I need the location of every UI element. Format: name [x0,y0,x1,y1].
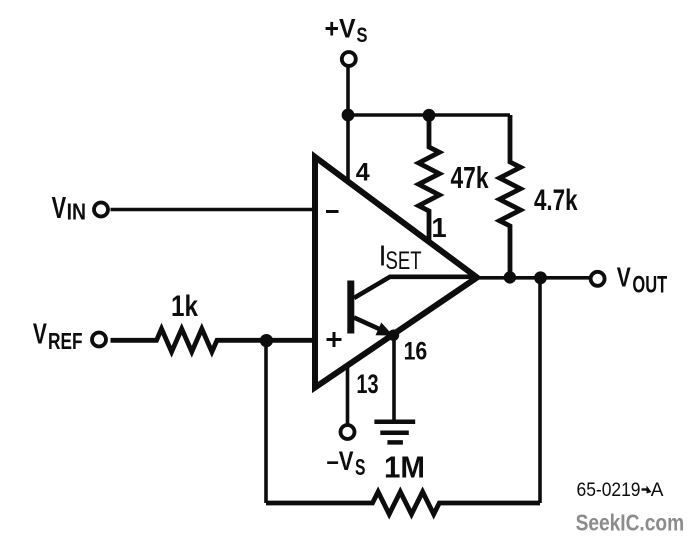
wire pin 13 to -VS [346,364,350,424]
svg-text:4: 4 [356,159,370,187]
transistor Q1 base bar [347,281,354,334]
svg-text:47k: 47k [451,160,490,195]
terminal VREF [92,333,106,347]
text 65-0219-A [577,480,664,501]
node junction output 4.7k [504,271,516,283]
svg-text:REF: REF [48,328,83,354]
svg-text:1k: 1k [171,290,198,323]
svg-text:65-0219: 65-0219 [577,480,641,501]
svg-text:1: 1 [431,212,446,243]
terminal VOUT [591,272,605,286]
op-amp U1 [315,157,477,388]
resistor 4.7k [500,115,521,278]
svg-text:V: V [33,319,47,351]
label ISET [379,241,422,276]
transistor Q1 emitter wire [354,318,387,333]
svg-text:S: S [357,24,368,47]
svg-text:V: V [52,190,67,225]
node junction top rail left [342,109,355,122]
resistor 1M and bottom feedback wire [266,492,540,514]
label VOUT [617,261,668,298]
wire feedback right vertical [538,278,542,503]
node junction pin 16 [388,330,399,341]
svg-text:4.7k: 4.7k [534,184,578,217]
terminal -VS [341,425,355,439]
svg-text:13: 13 [356,369,378,399]
resistor 1k and wire VREF to plus input [111,329,316,352]
svg-text:SET: SET [386,247,422,275]
label +VS [325,14,368,48]
node junction top rail mid [423,109,436,122]
svg-text:+V: +V [325,14,356,44]
svg-text:16: 16 [404,338,428,366]
svg-text:IN: IN [67,199,86,225]
label VREF [33,319,83,354]
wire VIN to minus input [111,208,316,212]
op-amp plus input sign [327,332,342,347]
transistor Q1 collector wire [354,277,472,298]
svg-text:V: V [617,261,631,292]
label VIN [52,190,86,225]
op-amp minus input sign [326,210,339,213]
wire feedback left vertical [264,340,268,503]
svg-text:OUT: OUT [632,271,667,298]
wire +VS to pin 4 [346,68,350,183]
transistor Q1 emitter arrowhead [376,323,394,336]
svg-text:–V: –V [327,446,354,476]
resistor 47k [419,115,440,242]
svg-text:S: S [355,454,365,480]
ground [374,422,415,443]
terminal VIN [94,203,108,217]
svg-text:1M: 1M [384,451,425,485]
svg-text:A: A [651,480,664,501]
label -VS [327,446,366,480]
terminal +VS [342,52,356,66]
svg-text:SeekIC.com: SeekIC.com [576,510,685,536]
wire output [474,276,590,280]
wire pin 16 to ground [392,334,396,422]
node junction output feedback [534,271,547,284]
wire top rail [348,113,510,117]
node junction VREF feedback [260,334,273,347]
